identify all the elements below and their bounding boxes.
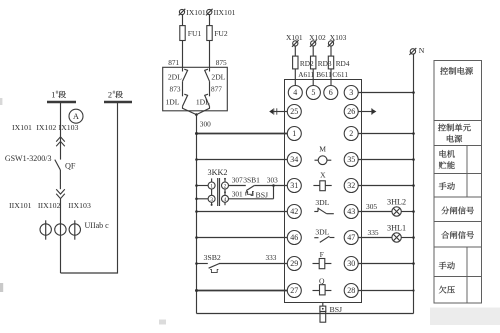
svg-text:N: N — [419, 46, 425, 55]
svg-text:3SB1: 3SB1 — [243, 175, 260, 184]
node labels IIX101 IIX102 IIX103 — [9, 201, 91, 210]
wire B611 — [313, 69, 332, 86]
svg-text:27: 27 — [290, 286, 298, 295]
pin 43 — [344, 205, 358, 219]
svg-text:IX103: IX103 — [59, 123, 79, 132]
svg-text:B611: B611 — [316, 70, 332, 79]
svg-text:M: M — [319, 145, 326, 154]
bottom bus wire — [197, 313, 414, 315]
svg-text:3SB2: 3SB2 — [204, 253, 221, 262]
fuse RD3 — [311, 56, 332, 69]
disconnector (lower chevrons) — [56, 189, 65, 198]
svg-text:3DL: 3DL — [315, 228, 329, 237]
contact 2DL (left) — [168, 69, 188, 81]
svg-text:871: 871 — [168, 58, 179, 67]
contact 3DL (no) — [314, 198, 334, 214]
coil F — [313, 250, 332, 269]
svg-text:34: 34 — [290, 155, 298, 164]
svg-text:6: 6 — [329, 88, 333, 97]
svg-text:877: 877 — [211, 85, 222, 94]
wire down to PT — [60, 199, 62, 273]
svg-text:IIX101: IIX101 — [214, 8, 236, 17]
svg-text:43: 43 — [347, 207, 355, 216]
wire C611 — [331, 69, 348, 86]
wire junction down — [273, 186, 275, 199]
svg-text:GSW1-3200/3: GSW1-3200/3 — [5, 154, 52, 163]
svg-text:300: 300 — [200, 120, 211, 129]
svg-text:875: 875 — [216, 58, 227, 67]
DL auxiliary contact box — [163, 67, 228, 111]
wire from bus 1 down — [60, 102, 62, 160]
wire 305 — [358, 202, 392, 211]
3KK2 pin 2 — [222, 182, 229, 190]
wire pin2 to N — [358, 132, 415, 135]
wire pin28 to N — [358, 289, 414, 291]
wires to fuses — [295, 46, 331, 56]
svg-text:30: 30 — [347, 259, 355, 268]
junction — [195, 236, 198, 239]
pin 28 — [344, 284, 358, 298]
wire pin35 to N — [358, 158, 415, 161]
scan artifact left edge — [0, 283, 3, 292]
svg-text:BSJ: BSJ — [330, 305, 343, 314]
pin 4 — [288, 86, 302, 100]
svg-text:26: 26 — [347, 107, 355, 116]
svg-text:RD4: RD4 — [336, 59, 350, 68]
N rail wire — [413, 54, 415, 313]
scan artifact bottom right — [430, 308, 500, 326]
svg-text:FU2: FU2 — [214, 29, 228, 38]
relay BSJ coil — [320, 312, 326, 323]
scan artifact bottom left — [159, 320, 166, 325]
terminal IIX101 — [206, 8, 236, 17]
svg-text:873: 873 — [170, 85, 181, 94]
node labels IX101 IX102 IX103 — [12, 123, 79, 132]
svg-text:333: 333 — [266, 253, 277, 262]
legend: 控制电源 — [440, 67, 473, 75]
terminal X102 — [309, 33, 326, 47]
wire — [209, 15, 211, 26]
junction — [195, 289, 198, 292]
svg-text:UIIab c: UIIab c — [85, 221, 110, 230]
contact 3DL (nc) — [314, 228, 334, 243]
svg-text:#: # — [56, 90, 59, 96]
svg-text:C611: C611 — [332, 70, 348, 79]
legend: 电机贮能 — [439, 150, 455, 169]
terminal IX101 — [179, 8, 206, 17]
svg-text:42: 42 — [290, 207, 298, 216]
pin 42 — [287, 205, 301, 219]
controller unit block — [285, 80, 362, 303]
wire 877 — [210, 81, 223, 96]
3KK2 linkage bars — [218, 178, 220, 206]
junction — [195, 158, 198, 161]
pin 31 — [287, 179, 301, 193]
pin 1 — [287, 127, 301, 141]
pin 6 — [324, 86, 338, 100]
svg-text:3: 3 — [349, 88, 353, 97]
voltage transformer winding c — [69, 220, 80, 239]
svg-text:1: 1 — [292, 129, 296, 138]
fuse FU1 — [180, 26, 202, 41]
pin 29 — [287, 257, 301, 271]
merge wires to node 300 — [183, 106, 210, 114]
wire lamp to N — [401, 236, 415, 239]
svg-text:25: 25 — [290, 107, 298, 116]
pin 32 — [344, 179, 358, 193]
wire to pin 46 — [197, 237, 288, 239]
contact 1DL (left) — [165, 94, 187, 106]
svg-text:32: 32 — [347, 181, 355, 190]
bus section 1 (1#段) — [47, 101, 76, 103]
svg-text:46: 46 — [290, 233, 298, 242]
svg-text:4: 4 — [224, 197, 227, 203]
svg-text:1DL: 1DL — [196, 98, 210, 107]
wire to pin 42 — [197, 211, 288, 213]
wire feeder to 3KK2 pin1 — [197, 185, 209, 187]
svg-text:3HL1: 3HL1 — [387, 224, 406, 233]
svg-text:RD2: RD2 — [300, 59, 314, 68]
svg-text:303: 303 — [267, 176, 278, 185]
pin 34 — [287, 153, 301, 167]
voltage transformer winding b — [55, 224, 66, 235]
terminal X103 — [328, 33, 347, 47]
wire feeder to 3KK2 pin3 — [197, 198, 209, 200]
fuse RD4 — [328, 56, 350, 69]
coil X — [313, 171, 331, 191]
3KK2 pin 4 — [222, 195, 229, 203]
coil Q — [313, 276, 332, 295]
connector arrow at pin 25 — [269, 108, 287, 114]
svg-text:IX101: IX101 — [12, 123, 32, 132]
svg-text:28: 28 — [347, 286, 355, 295]
contact 2DL (right) — [205, 69, 226, 81]
svg-text:FU1: FU1 — [188, 29, 202, 38]
svg-text:5: 5 — [311, 88, 315, 97]
voltage transformer winding a — [40, 220, 51, 239]
svg-text:A611: A611 — [298, 70, 314, 79]
svg-text:A: A — [73, 112, 79, 121]
svg-text:4: 4 — [293, 88, 297, 97]
wire 335 — [358, 228, 392, 238]
wire pin3 to N — [358, 91, 415, 94]
svg-text:IX102: IX102 — [36, 123, 56, 132]
wire A611 — [295, 69, 314, 86]
fuse RD2 — [293, 56, 314, 69]
ammeter A — [69, 109, 83, 123]
svg-text:IIX102: IIX102 — [38, 201, 61, 210]
svg-text:Q: Q — [319, 276, 325, 285]
legend: 手动 — [439, 262, 455, 270]
pin 30 — [344, 257, 358, 271]
svg-text:3HL2: 3HL2 — [387, 198, 406, 207]
svg-text:IX101: IX101 — [186, 8, 206, 17]
breaker QF blade — [55, 160, 76, 171]
wire 307 — [229, 175, 246, 185]
wire pin32 to N — [358, 184, 415, 187]
pin 26 — [344, 105, 358, 119]
svg-text:X102: X102 — [309, 33, 326, 42]
pin 35 — [344, 153, 358, 167]
junction — [195, 132, 198, 135]
legend: 手动 — [439, 182, 455, 190]
svg-text:29: 29 — [290, 259, 298, 268]
wire 303 — [254, 176, 287, 186]
connector arrow at pin 26 — [358, 108, 376, 114]
legend: 欠压 — [439, 286, 455, 294]
feeder wire (left rail) — [196, 115, 198, 314]
svg-text:2DL: 2DL — [211, 73, 225, 82]
push button 3SB2 — [197, 253, 221, 273]
wire 873 — [170, 81, 183, 96]
junction — [195, 262, 198, 265]
legend: 分闸信号 — [441, 207, 474, 215]
svg-text:X103: X103 — [330, 33, 347, 42]
relay BSJ terminal — [320, 303, 326, 312]
wire — [59, 170, 61, 189]
pin 27 — [287, 284, 301, 298]
svg-text:F: F — [320, 250, 324, 259]
motor M — [315, 145, 332, 165]
junction — [195, 198, 198, 201]
junction — [195, 210, 198, 213]
svg-text:47: 47 — [347, 233, 355, 242]
relay contact BSJ (nc) — [246, 190, 268, 199]
wire to pin 34 — [197, 159, 288, 161]
3KK2 contact dots — [211, 178, 226, 206]
pin 46 — [287, 231, 301, 245]
terminal N — [409, 46, 424, 55]
bus section 2 (2#段) — [104, 101, 132, 103]
pin 47 — [344, 231, 358, 245]
wire loop to bus 2 — [61, 102, 118, 273]
push button 3SB1 — [243, 175, 260, 194]
svg-text:31: 31 — [290, 181, 298, 190]
svg-text:3KK2: 3KK2 — [207, 168, 227, 177]
svg-text:307: 307 — [232, 175, 243, 184]
contact 1DL (right) — [196, 94, 210, 106]
svg-text:305: 305 — [366, 202, 377, 211]
svg-text:X: X — [320, 171, 326, 180]
pin 3 — [344, 86, 358, 100]
svg-text:1: 1 — [210, 184, 213, 190]
legend: 控制单元电源 — [438, 124, 471, 143]
svg-text:335: 335 — [368, 228, 379, 237]
legend table frame — [434, 61, 482, 304]
svg-text:IIX103: IIX103 — [68, 201, 91, 210]
wire 875 — [210, 41, 228, 72]
scan artifact left edge 2 — [0, 98, 2, 105]
svg-text:3: 3 — [210, 197, 213, 203]
svg-text:3DL: 3DL — [315, 198, 329, 207]
svg-text:QF: QF — [65, 162, 76, 171]
legend: 合闸信号 — [441, 231, 474, 239]
wire 301 — [229, 189, 274, 198]
svg-text:1DL: 1DL — [165, 98, 179, 107]
pin 25 — [287, 105, 301, 119]
wire 871 — [168, 41, 182, 72]
3KK2 pin 3 — [208, 195, 215, 203]
legend row dividers — [434, 121, 482, 277]
3KK2 stems — [212, 178, 225, 205]
junction — [195, 113, 198, 116]
pin 2 — [344, 127, 358, 141]
svg-text:IIX101: IIX101 — [9, 201, 32, 210]
lamp 3HL2 — [387, 198, 406, 217]
pin 5 — [306, 86, 320, 100]
lamp 3HL1 — [387, 224, 406, 243]
fuse FU2 — [207, 26, 228, 41]
svg-text:BSJ: BSJ — [256, 190, 269, 199]
wire 333 — [219, 253, 287, 263]
junction — [272, 184, 275, 187]
svg-text:2: 2 — [224, 184, 227, 190]
svg-text:RD3: RD3 — [318, 59, 332, 68]
legend sub-column dividers — [466, 146, 468, 304]
wire — [182, 15, 184, 26]
disconnector (upper chevrons) — [56, 137, 65, 146]
svg-text:301: 301 — [232, 189, 243, 198]
terminal X101 — [286, 33, 303, 47]
wire to pin 1 (thick) — [197, 133, 288, 135]
svg-text:2DL: 2DL — [168, 73, 182, 82]
svg-text:#: # — [113, 90, 116, 96]
svg-text:2: 2 — [349, 129, 353, 138]
svg-text:35: 35 — [347, 155, 355, 164]
wire lamp to N — [401, 210, 415, 213]
3KK2 pin 1 — [208, 182, 215, 190]
junction — [195, 184, 198, 187]
svg-text:2: 2 — [108, 90, 112, 99]
wire pin30 to N — [358, 262, 415, 265]
wire to pin 27 (thick) — [197, 290, 288, 292]
